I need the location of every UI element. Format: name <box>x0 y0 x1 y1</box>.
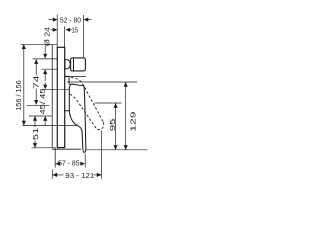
dim 156/156 <box>23 44 25 125</box>
ext line x85.5 (57-85 right) <box>84 154 86 168</box>
svg-text:52 - 80: 52 - 80 <box>60 17 81 24</box>
dim 74 <box>35 59 37 75</box>
wall second line <box>54 148 56 167</box>
ext line y58.9 (O24 top / 74 top) <box>33 58 58 60</box>
ext line y116 (45/45 bottom, 51 top) <box>29 115 52 117</box>
ext line y76.6 (boss top) <box>65 76 86 78</box>
dim 57-85 <box>55 162 60 166</box>
wall bottom line <box>52 148 81 150</box>
svg-text:Ø 24: Ø 24 <box>44 27 51 46</box>
ext line y69.2 (O24 bottom) <box>41 68 57 70</box>
spout neck <box>65 60 70 69</box>
handle lever solid <box>69 84 86 152</box>
ext line y82 (129 top) <box>67 81 137 83</box>
svg-text:15: 15 <box>71 27 78 34</box>
dim 129 <box>125 82 127 150</box>
ext line x101.5 (93-121 right) <box>101 131 103 179</box>
dim O24 arrows <box>44 46 46 53</box>
handle dashed bottom edge <box>70 94 97 129</box>
spout flange line <box>73 58 75 71</box>
svg-text:95: 95 <box>110 118 117 131</box>
dim 45/45 arrows <box>43 85 47 90</box>
dim 95 <box>115 103 117 150</box>
ext line y103 (95 top) <box>95 102 122 104</box>
ext line x52.3 (93-121 left) <box>51 170 53 179</box>
ext line y89.7 (45/45 top) <box>41 89 69 91</box>
handle boss <box>65 76 70 110</box>
handle dashed top edge (rotated position) <box>71 78 103 123</box>
ext line body rear x83.4 <box>82 15 84 58</box>
ext line y105 (74 bottom) <box>27 104 50 106</box>
dim 15 <box>51 29 55 31</box>
svg-text:129: 129 <box>131 111 138 131</box>
svg-text:51: 51 <box>33 127 40 140</box>
wall finished-surface line <box>51 44 53 147</box>
ext line y44.3 (156 top) <box>21 43 57 45</box>
escutcheon plate <box>57 47 64 147</box>
ext line plate front x64.5 <box>64 27 66 48</box>
svg-text:93 - 121: 93 - 121 <box>65 173 94 180</box>
dim 52-80 top <box>49 19 55 21</box>
svg-text:45/ 45: 45/ 45 <box>40 88 47 114</box>
ext line y150 (bottom ref) <box>86 149 147 151</box>
dim 51 <box>34 116 36 127</box>
svg-text:156 / 156: 156 / 156 <box>16 80 23 111</box>
handle dashed tip cap <box>97 122 104 129</box>
svg-text:57 - 85: 57 - 85 <box>58 161 80 168</box>
ext line y125.6 (lever bottom) <box>23 125 78 127</box>
svg-text:74: 74 <box>34 75 41 89</box>
ext line top left vertical x57.2 <box>56 15 58 48</box>
dim 93-121 <box>52 174 63 176</box>
spout cylinder <box>71 58 86 71</box>
